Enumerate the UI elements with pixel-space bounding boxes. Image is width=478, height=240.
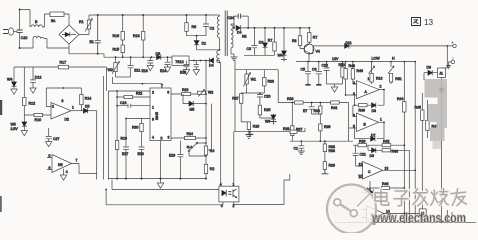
- capacitor C5: [305, 62, 311, 85]
- svg-text:D7: D7: [371, 133, 376, 137]
- svg-text:D11: D11: [346, 41, 352, 45]
- capacitor C12: [193, 61, 199, 75]
- transformer T1 aux winding: [217, 50, 220, 63]
- capacitor C17: [123, 147, 129, 179]
- terminal plus: [452, 42, 457, 48]
- capacitor E14: [164, 57, 170, 72]
- svg-text:13: 13: [385, 166, 389, 170]
- resistor R45: [421, 93, 424, 222]
- diode D4 secondary: [236, 25, 240, 30]
- wire bridge bottom to neg bus: [68, 44, 70, 54]
- resistor R44: [403, 102, 406, 112]
- wire A feedback: [355, 90, 385, 106]
- svg-text:D2: D2: [65, 118, 69, 122]
- svg-text:R28: R28: [283, 127, 289, 131]
- resistor R13: [370, 67, 373, 84]
- watermark text dian: [375, 189, 389, 205]
- watermark text fa: [413, 189, 428, 206]
- svg-text:R1: R1: [79, 20, 84, 24]
- diode V5: [439, 77, 444, 222]
- wire divider box: [235, 70, 278, 132]
- svg-text:D6: D6: [427, 66, 432, 70]
- svg-text:D1: D1: [202, 42, 207, 46]
- svg-text:R35: R35: [324, 125, 330, 129]
- wire 7812 output: [189, 60, 206, 62]
- svg-text:J1-1: J1-1: [187, 145, 193, 149]
- svg-text:E19: E19: [169, 154, 175, 158]
- wire opto pin3: [222, 202, 224, 205]
- resistor R35: [319, 114, 322, 141]
- wire n1 inv input: [46, 88, 81, 107]
- svg-text:1: 1: [380, 118, 382, 122]
- svg-text:W2: W2: [208, 91, 213, 95]
- svg-text:R29: R29: [329, 164, 335, 168]
- op-amp C: [358, 162, 415, 180]
- svg-text:C22: C22: [322, 64, 328, 68]
- resistor R47: [426, 100, 429, 138]
- diode D10: [369, 190, 373, 195]
- wire choke to fuse: [42, 14, 50, 27]
- capacitor C3: [251, 28, 257, 55]
- capacitor C15: [183, 61, 189, 75]
- wire vcc loop: [14, 67, 162, 91]
- capacitor C20: [257, 93, 263, 105]
- svg-text:C3: C3: [247, 47, 252, 51]
- resistor R6: [185, 15, 188, 36]
- wire opto pin2: [234, 174, 290, 205]
- svg-text:4: 4: [353, 81, 355, 85]
- resistor R48: [344, 62, 357, 95]
- svg-text:N2: N2: [242, 34, 247, 38]
- wire compare row2: [362, 181, 404, 196]
- svg-text:R48: R48: [349, 64, 355, 68]
- svg-text:E11: E11: [134, 69, 140, 73]
- edge artifact left 2: [0, 196, 2, 212]
- wire primary bottom: [197, 49, 220, 51]
- figure caption 图13: [412, 18, 421, 26]
- wire input rails: [20, 10, 33, 49]
- svg-text:5: 5: [353, 125, 355, 129]
- wire top bus: [89, 14, 220, 16]
- svg-text:R44: R44: [397, 97, 403, 101]
- svg-text:C20: C20: [264, 95, 270, 99]
- diode D7: [371, 136, 375, 141]
- diode D8: [372, 103, 376, 108]
- svg-text:R26: R26: [253, 125, 259, 129]
- resistor R51: [389, 74, 392, 85]
- ground R28 row: [247, 132, 254, 137]
- resistor R17: [58, 65, 68, 69]
- svg-text:D8: D8: [372, 109, 377, 113]
- resistor R7b: [308, 28, 311, 44]
- svg-text:4: 4: [66, 170, 68, 174]
- svg-text:R8: R8: [292, 39, 297, 43]
- svg-text:R33: R33: [287, 97, 293, 101]
- resistor R29b: [321, 162, 328, 174]
- svg-text:5A: 5A: [51, 19, 56, 23]
- wire bottom bus: [108, 178, 207, 180]
- capacitor D12: [30, 67, 36, 93]
- resistor R41: [331, 101, 340, 104]
- svg-text:C2: C2: [210, 27, 215, 31]
- resistor R10: [24, 113, 51, 116]
- resistor R28: [290, 130, 297, 133]
- capacitor C22: [324, 62, 330, 84]
- svg-text:R27: R27: [232, 97, 238, 101]
- svg-text:R30: R30: [132, 126, 138, 130]
- svg-text:www.elecfans.com: www.elecfans.com: [371, 211, 466, 226]
- svg-text:R29: R29: [359, 140, 365, 144]
- op-amp B: [349, 105, 384, 131]
- svg-text:7812: 7812: [175, 60, 183, 64]
- svg-text:10: 10: [359, 175, 363, 179]
- svg-text:R41: R41: [331, 106, 337, 110]
- svg-text:5: 5: [161, 137, 163, 141]
- wire B feedback: [355, 122, 385, 138]
- svg-text:R08: R08: [329, 149, 335, 153]
- resistor R19: [115, 106, 118, 179]
- watermark grey glyph mid-right: [425, 79, 448, 149]
- wire aux rail: [104, 56, 172, 58]
- resistor R38: [323, 144, 326, 162]
- svg-text:R43: R43: [392, 149, 398, 153]
- wire bottom right bus: [334, 210, 476, 222]
- resistor R15: [121, 45, 124, 57]
- edge artifact left 1: [0, 100, 2, 115]
- svg-text:C24: C24: [228, 16, 234, 20]
- svg-text:1: 1: [152, 106, 154, 110]
- resistor R34: [319, 103, 322, 115]
- bridge rectifier: [59, 25, 79, 44]
- resistor R2: [204, 164, 207, 178]
- diode D11: [345, 43, 349, 48]
- fuse 5A: [50, 12, 69, 25]
- svg-text:V4: V4: [316, 50, 320, 54]
- watermark text zi: [394, 191, 408, 206]
- ground secondary: [231, 54, 238, 61]
- svg-text:R17: R17: [60, 61, 67, 65]
- op-amp A: [353, 81, 384, 99]
- diode D6: [372, 148, 376, 153]
- svg-text:D6: D6: [370, 154, 375, 158]
- box J2: [419, 209, 426, 216]
- svg-text:R34: R34: [314, 109, 320, 113]
- capacitor E11: [128, 57, 134, 77]
- resistor R22: [182, 92, 191, 95]
- svg-text:2.5V: 2.5V: [11, 127, 19, 131]
- op-amp N1: [51, 103, 73, 120]
- svg-text:R21: R21: [136, 91, 142, 95]
- capacitor C18: [139, 147, 145, 179]
- transformer T1 core: [225, 11, 227, 57]
- capacitor E13: [147, 57, 153, 70]
- svg-text:E1: E1: [90, 40, 94, 44]
- terminal minus: [446, 58, 454, 69]
- AC plug P1: [3, 28, 20, 35]
- svg-text:W4: W4: [7, 78, 12, 82]
- wire box to gnd: [234, 61, 236, 70]
- wire feedback columns: [79, 76, 103, 180]
- resistor R14: [80, 88, 83, 111]
- resistor R12: [23, 67, 26, 115]
- resistor R21: [117, 91, 150, 99]
- svg-text:W6: W6: [265, 120, 270, 124]
- svg-text:D4: D4: [209, 64, 214, 68]
- resistor R4: [204, 61, 207, 165]
- wire choke lower to bridge: [44, 39, 69, 49]
- svg-text:R10: R10: [35, 118, 42, 122]
- wire pin8 row: [126, 119, 150, 147]
- capacitor C2: [203, 15, 209, 36]
- svg-text:R6: R6: [192, 25, 197, 29]
- svg-text:W4: W4: [278, 54, 283, 58]
- svg-text:D12: D12: [35, 76, 42, 80]
- svg-text:C16: C16: [120, 101, 126, 105]
- zener W5: [21, 115, 27, 136]
- neg bus wire: [69, 54, 104, 57]
- svg-text:12: 12: [359, 163, 363, 167]
- svg-text:R7: R7: [313, 36, 318, 40]
- wire right columns: [404, 62, 415, 223]
- svg-text:6: 6: [49, 166, 51, 170]
- svg-text:1: 1: [368, 77, 370, 81]
- resistor R29: [358, 144, 367, 147]
- svg-text:C21: C21: [360, 153, 366, 157]
- svg-text:W1: W1: [251, 78, 256, 82]
- resistor R37: [291, 103, 294, 142]
- svg-text:12V: 12V: [332, 57, 339, 61]
- wire output gnd: [244, 54, 275, 56]
- wire opto pin1: [233, 132, 235, 187]
- wire comparator rows: [353, 145, 409, 150]
- varistor R1: [85, 15, 93, 32]
- svg-text:C10: C10: [21, 36, 28, 40]
- choke B upper winding: [31, 25, 42, 27]
- svg-text:R16: R16: [113, 34, 120, 38]
- svg-text:R49: R49: [359, 109, 365, 113]
- relay J1: [438, 46, 448, 78]
- watermark logo circle: [327, 185, 376, 234]
- svg-text:C6: C6: [312, 68, 317, 72]
- resistor R30: [140, 123, 143, 146]
- wire pin3 row: [171, 137, 206, 139]
- svg-text:E7: E7: [303, 109, 307, 113]
- capacitor E1: [95, 15, 101, 54]
- svg-text:2: 2: [52, 105, 54, 109]
- resistor R7: [273, 28, 276, 55]
- wire snubber: [187, 36, 207, 41]
- svg-text:E13: E13: [142, 69, 148, 73]
- ground op-amp D: [371, 219, 378, 225]
- svg-text:8: 8: [62, 99, 64, 103]
- resistor R26: [245, 122, 252, 138]
- optocoupler U2: [219, 186, 239, 202]
- capacitor E7: [309, 103, 321, 115]
- wire pin6 row: [171, 93, 198, 95]
- watermark text you: [451, 188, 467, 206]
- svg-text:R12: R12: [29, 102, 36, 106]
- zener W4b: [281, 28, 287, 62]
- svg-text:J1: J1: [439, 72, 443, 76]
- wire feedback row: [278, 103, 348, 142]
- svg-text:5: 5: [49, 154, 51, 158]
- svg-text:R46: R46: [357, 69, 363, 73]
- svg-text:R14: R14: [85, 97, 91, 101]
- diode D5b: [73, 108, 97, 113]
- svg-text:R45: R45: [415, 106, 421, 110]
- diode D6c: [424, 70, 438, 80]
- svg-text:D5: D5: [85, 105, 90, 109]
- transformer T1 secondary winding: [231, 24, 233, 54]
- svg-text:3845: 3845: [155, 112, 159, 120]
- svg-text:D3: D3: [259, 41, 264, 45]
- svg-text:E15: E15: [180, 71, 186, 75]
- diode D5: [157, 55, 161, 60]
- wire output bus: [240, 27, 310, 29]
- svg-text:3: 3: [168, 136, 170, 140]
- transformer T1 primary winding: [217, 15, 219, 50]
- svg-text:R51: R51: [395, 77, 401, 81]
- svg-text:C1: C1: [294, 147, 299, 151]
- zener D3: [262, 28, 267, 55]
- resistor R46: [351, 62, 356, 84]
- trimmer H: [388, 62, 394, 74]
- svg-text:E18: E18: [138, 152, 144, 156]
- capacitor C19: [177, 141, 183, 179]
- svg-text:8: 8: [152, 117, 154, 121]
- op-amp N5: [47, 155, 79, 173]
- transistor V4: [304, 44, 317, 54]
- wire opto loop left: [106, 180, 223, 205]
- svg-text:7: 7: [161, 84, 163, 88]
- svg-text:D4: D4: [237, 30, 242, 34]
- wire secondary top: [231, 24, 234, 28]
- watermark text elecfans url: [371, 211, 466, 226]
- capacitor C27: [46, 128, 52, 147]
- svg-text:C27: C27: [53, 137, 59, 141]
- zener D1: [194, 41, 199, 50]
- wire pin2 row: [108, 91, 150, 180]
- svg-text:R25: R25: [264, 108, 270, 112]
- svg-text:R18: R18: [133, 34, 140, 38]
- svg-text:R23: R23: [268, 80, 274, 84]
- zener W4: [11, 67, 17, 94]
- svg-text:W2: W2: [108, 68, 113, 72]
- resistor R40: [381, 186, 389, 189]
- trimmer W2: [112, 57, 120, 77]
- capacitor C1: [298, 141, 305, 154]
- svg-text:6: 6: [353, 114, 355, 118]
- resistor R42: [382, 144, 391, 147]
- capacitor C6: [316, 62, 322, 85]
- resistor R16: [121, 15, 124, 45]
- zener W6: [270, 114, 276, 125]
- wire aux branch: [208, 104, 212, 150]
- wire R28 row: [234, 128, 305, 132]
- ground arrow mid: [157, 179, 163, 189]
- trimmer LOW: [369, 62, 375, 74]
- resistor R23: [247, 70, 266, 93]
- svg-text:E17: E17: [122, 152, 128, 156]
- choke B lower winding: [33, 36, 44, 38]
- svg-text:R13: R13: [376, 77, 382, 81]
- watermark text shao: [431, 189, 449, 206]
- ground 12V filter: [331, 84, 337, 92]
- svg-text:R4: R4: [210, 149, 215, 153]
- resistor R27: [240, 93, 249, 122]
- svg-text:R7: R7: [268, 39, 273, 43]
- svg-text:R50: R50: [339, 63, 345, 67]
- svg-text:2: 2: [380, 85, 382, 89]
- svg-text:N5: N5: [58, 163, 63, 167]
- svg-text:D5: D5: [156, 52, 161, 56]
- svg-text:R24: R24: [187, 132, 193, 136]
- svg-text:R15: R15: [113, 47, 120, 51]
- svg-text:M3: M3: [190, 108, 195, 112]
- svg-text:C5: C5: [301, 68, 306, 72]
- wire primary return: [220, 62, 222, 186]
- svg-text:R42: R42: [383, 140, 389, 144]
- diode D4 aux: [206, 58, 220, 63]
- ground op-amp N5: [60, 169, 66, 181]
- svg-text:7: 7: [76, 159, 78, 163]
- svg-text:3: 3: [221, 204, 223, 208]
- resistor R33: [295, 101, 304, 104]
- wire 12V rail: [296, 54, 415, 62]
- resistor R25: [258, 105, 273, 118]
- diode M3: [183, 94, 206, 106]
- svg-text:13: 13: [424, 18, 434, 27]
- resistor R8: [298, 28, 304, 49]
- svg-text:R2: R2: [210, 167, 215, 171]
- resistor R24: [185, 136, 196, 139]
- wire W2-E11 bottom: [116, 76, 131, 78]
- op-amp D: [362, 206, 420, 221]
- svg-text:R48: R48: [382, 182, 388, 186]
- svg-text:2: 2: [152, 91, 154, 95]
- wire bridge to R1: [79, 29, 89, 35]
- svg-text:1: 1: [72, 106, 74, 110]
- trimmer W2b: [198, 90, 207, 97]
- wire to plus terminal: [317, 45, 453, 47]
- resistor R49: [358, 104, 367, 107]
- relay contact J1-1: [188, 142, 206, 156]
- resistor R18: [142, 15, 145, 57]
- svg-text:6: 6: [167, 91, 169, 95]
- resistor R43: [382, 149, 391, 152]
- svg-text:R22: R22: [182, 88, 188, 92]
- trimmer W1: [244, 70, 251, 93]
- svg-text:H: H: [392, 57, 395, 61]
- svg-text:4: 4: [152, 136, 154, 140]
- capacitor C10: [17, 30, 23, 33]
- svg-text:E14: E14: [160, 69, 166, 73]
- capacitor C24: [234, 14, 248, 28]
- resistor R50: [327, 62, 345, 84]
- svg-text:LOW: LOW: [372, 57, 381, 61]
- regulator 7812: [172, 56, 189, 65]
- IC U1 3845: [150, 88, 171, 141]
- wire pin5 down: [160, 141, 162, 179]
- capacitor C16: [117, 97, 150, 108]
- wire lower row: [290, 141, 353, 144]
- capacitor C21: [353, 145, 363, 166]
